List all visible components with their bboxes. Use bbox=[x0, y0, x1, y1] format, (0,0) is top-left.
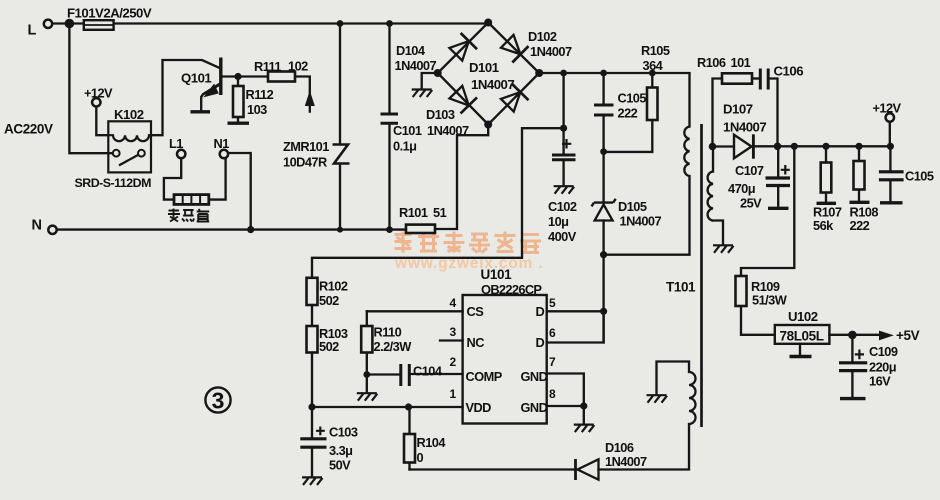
svg-text:GND: GND bbox=[521, 369, 548, 384]
svg-text:103: 103 bbox=[247, 102, 267, 117]
wire R107 leads bbox=[825, 146, 827, 202]
terminal N1 bbox=[220, 150, 228, 158]
node heater N bbox=[247, 226, 254, 233]
wire pin7 GND bbox=[547, 374, 584, 407]
diode D105 1N4007 clamp bbox=[592, 199, 616, 221]
capacitor C106 bbox=[760, 69, 768, 90]
svg-text:U101: U101 bbox=[481, 267, 513, 282]
svg-text:2: 2 bbox=[450, 355, 457, 369]
svg-text:6: 6 bbox=[549, 326, 556, 340]
wire N1 to N rail bbox=[228, 153, 251, 230]
wire HV+ rail to transformer primary bbox=[539, 73, 689, 127]
transformer T101 core bbox=[700, 124, 703, 427]
resistor R105 364 bbox=[647, 88, 658, 121]
wire U102 ground lead bbox=[799, 344, 801, 356]
svg-text:222: 222 bbox=[850, 218, 870, 233]
svg-text:1N4007: 1N4007 bbox=[471, 77, 514, 92]
wire 12V output rail bbox=[754, 145, 890, 147]
wire primary bottom to drain node bbox=[604, 176, 690, 255]
svg-text:5: 5 bbox=[549, 296, 556, 310]
wire Q101 emitter to ground bbox=[201, 84, 219, 111]
svg-text:10D47R: 10D47R bbox=[283, 155, 327, 170]
wire L1 to heater bbox=[164, 158, 181, 199]
node R109 tap bbox=[791, 143, 798, 150]
diode D101 1N4007 (bridge bottom-right) bbox=[499, 84, 528, 113]
svg-text:C109: C109 bbox=[869, 344, 898, 359]
svg-text:1: 1 bbox=[450, 387, 457, 401]
svg-text:SRD-S-112DM: SRD-S-112DM bbox=[75, 176, 152, 190]
wire secondary bottom to ground bbox=[713, 221, 723, 245]
wire D106 anode to aux winding bbox=[599, 424, 690, 470]
node L/fuse bbox=[65, 19, 75, 29]
svg-text:0: 0 bbox=[417, 450, 424, 465]
svg-text:N: N bbox=[32, 218, 42, 234]
node C101 top bbox=[386, 20, 393, 27]
heater element 发热盘 bbox=[174, 195, 209, 205]
node drain-pin5 bbox=[600, 308, 607, 315]
svg-text:1N4007: 1N4007 bbox=[395, 58, 437, 73]
svg-text:K102: K102 bbox=[114, 107, 144, 122]
svg-text:2.2/3W: 2.2/3W bbox=[374, 339, 413, 354]
wire secondary top lead bbox=[712, 147, 714, 172]
wire heater to N1 bbox=[209, 158, 226, 199]
wire ZMR101 leads bbox=[339, 24, 341, 230]
wire C106 to snubber right leg bbox=[769, 79, 778, 147]
transformer T101 secondary winding bbox=[708, 172, 713, 221]
svg-text:101: 101 bbox=[731, 55, 751, 70]
svg-text:D104: D104 bbox=[396, 43, 426, 58]
svg-text:C104: C104 bbox=[413, 364, 443, 379]
wire pin6 D to drain line bbox=[547, 311, 604, 342]
svg-text:502: 502 bbox=[319, 339, 339, 354]
wire C109 leads bbox=[851, 335, 853, 398]
ground secondary winding bbox=[713, 245, 734, 253]
resistor R103 502 bbox=[307, 326, 318, 353]
wire C102 top lead bbox=[562, 73, 564, 154]
ground C109 bbox=[840, 397, 866, 400]
svg-text:56k: 56k bbox=[813, 218, 834, 233]
svg-text:D102: D102 bbox=[528, 29, 557, 44]
svg-text:ZMR101: ZMR101 bbox=[283, 139, 329, 154]
node bridge pos bbox=[535, 69, 543, 77]
capacitor C104 bbox=[401, 364, 410, 386]
resistor R110 2.2/3W bbox=[361, 326, 372, 353]
svg-text:D: D bbox=[536, 304, 545, 319]
transformer T101 aux winding bbox=[689, 372, 696, 424]
svg-text:3: 3 bbox=[450, 325, 457, 339]
svg-text:C106: C106 bbox=[774, 64, 804, 79]
ground Q101 emitter bbox=[191, 110, 211, 113]
wire R104 leads bbox=[408, 407, 410, 470]
ground R110 / C104 bbox=[357, 393, 378, 401]
resistor R106 101 bbox=[722, 73, 752, 83]
wire CS pin4 to R110 bbox=[367, 310, 463, 312]
node R105 rail bbox=[649, 70, 656, 77]
resistor R107 56k bbox=[821, 163, 832, 193]
svg-text:C102: C102 bbox=[548, 199, 577, 214]
svg-text:R104: R104 bbox=[417, 435, 447, 450]
transistor Q101 bbox=[203, 58, 222, 97]
node clamp bbox=[600, 148, 607, 155]
page marker circled 3 bbox=[205, 387, 230, 413]
wire snubber left leg bbox=[713, 79, 723, 147]
svg-text:U102: U102 bbox=[788, 309, 818, 324]
ground R108 bbox=[850, 201, 870, 204]
svg-text:R112: R112 bbox=[246, 87, 274, 102]
capacitor C101 0.1u bbox=[381, 114, 399, 123]
transformer T101 primary winding bbox=[684, 127, 689, 177]
wire C102 bottom to ground bbox=[562, 161, 564, 186]
node startup bbox=[560, 125, 567, 132]
label 发热盘 (heater) bbox=[168, 209, 209, 222]
svg-text:C103: C103 bbox=[329, 425, 358, 440]
svg-text:1N4007: 1N4007 bbox=[620, 214, 662, 229]
arrow up near R111 (to +12V) bbox=[305, 91, 315, 107]
svg-text:7: 7 bbox=[549, 355, 556, 369]
wire C104 left lead bbox=[367, 373, 400, 375]
svg-text:C101: C101 bbox=[393, 123, 422, 138]
node R107 tap bbox=[822, 143, 829, 150]
node +5V bbox=[848, 331, 857, 340]
svg-text:4: 4 bbox=[450, 296, 457, 310]
svg-text:R110: R110 bbox=[374, 325, 402, 340]
capacitor C107 470u 25V bbox=[766, 165, 791, 186]
terminal L bbox=[44, 20, 52, 28]
capacitor C105 output bbox=[879, 172, 904, 180]
op-amp U101 OB2226CP box bbox=[463, 295, 547, 424]
svg-text:GND: GND bbox=[521, 400, 548, 415]
wire R101 right to bridge bottom bbox=[435, 126, 488, 229]
wire D105 anode to drain line bbox=[602, 221, 604, 343]
node R108 tap bbox=[855, 143, 862, 150]
svg-text:+5V: +5V bbox=[896, 328, 920, 343]
wire L branch down to relay contact bbox=[69, 24, 112, 154]
capacitor C103 3.3u 50V bbox=[300, 427, 326, 448]
resistor R101 51 bbox=[406, 225, 435, 233]
svg-text:F101V2A/250V: F101V2A/250V bbox=[67, 6, 152, 21]
node Q101 base bbox=[234, 73, 241, 80]
wire C107 leads bbox=[777, 146, 779, 207]
wire C103 top lead bbox=[311, 407, 313, 438]
wire +12V terminal lead bbox=[889, 122, 891, 146]
node ZMR top bbox=[337, 20, 344, 27]
svg-text:N1: N1 bbox=[214, 136, 230, 151]
svg-text:50V: 50V bbox=[329, 458, 351, 473]
wire C103 bottom to ground bbox=[311, 449, 313, 477]
svg-text:C107: C107 bbox=[735, 163, 764, 178]
svg-text:51/3W: 51/3W bbox=[752, 293, 788, 308]
wire R111 to up-arrow stub bbox=[295, 77, 310, 112]
wire bridge diamond bbox=[438, 23, 540, 125]
wire R106 to C106 bbox=[752, 77, 760, 79]
resistor R108 222 bbox=[854, 161, 865, 190]
wire R109 to U102 bbox=[741, 306, 775, 335]
svg-text:470μ: 470μ bbox=[728, 181, 755, 196]
fuse F101 V2A/250V bbox=[84, 20, 114, 30]
node D107 cathode bbox=[774, 143, 782, 151]
svg-text:D106: D106 bbox=[605, 440, 634, 455]
ground aux winding bbox=[647, 395, 668, 403]
terminal +12V relay bbox=[92, 98, 100, 106]
ground U102 bbox=[790, 355, 812, 358]
svg-text:CS: CS bbox=[467, 304, 485, 319]
svg-text:10μ: 10μ bbox=[548, 214, 568, 229]
wire NC pin3 stub bbox=[440, 339, 463, 341]
wire C105 clamp leads bbox=[602, 73, 604, 152]
wire R109 feed from 12V rail bbox=[741, 146, 794, 276]
svg-text:L1: L1 bbox=[169, 136, 183, 151]
node bridge AC2 bbox=[484, 121, 492, 129]
wire C101 leads bbox=[388, 24, 390, 230]
wire R110 leads bbox=[366, 311, 368, 392]
node VDD left bbox=[308, 403, 315, 410]
arrow +5V output bbox=[879, 331, 894, 341]
terminal N bbox=[48, 226, 56, 234]
node drain-primary bbox=[600, 251, 607, 258]
svg-text:1N4007: 1N4007 bbox=[605, 454, 647, 469]
ground C103 bbox=[302, 477, 323, 485]
wire COMP pin2 bbox=[410, 373, 463, 375]
svg-text:1N4007: 1N4007 bbox=[723, 120, 766, 135]
wire R102 to R103 bbox=[311, 305, 313, 326]
svg-text:D105: D105 bbox=[618, 199, 647, 214]
resistor R109 51/3W bbox=[736, 276, 747, 306]
svg-text:C105: C105 bbox=[618, 91, 647, 106]
capacitor C102 10u 400V bbox=[552, 139, 576, 160]
ground C105 output bbox=[880, 201, 903, 204]
ground U101 pins 7-8 bbox=[574, 425, 595, 433]
svg-text:364: 364 bbox=[643, 58, 664, 73]
wire pin8 GND to ground bbox=[547, 406, 584, 424]
svg-text:VDD: VDD bbox=[466, 400, 492, 415]
svg-text:D103: D103 bbox=[426, 107, 455, 122]
wire U102 output to +5V bbox=[829, 334, 879, 336]
svg-text:D107: D107 bbox=[723, 102, 753, 117]
node GND pins bbox=[580, 402, 587, 409]
wire R104 to D106 cathode bbox=[410, 468, 575, 470]
wire R103 to VDD node bbox=[311, 353, 313, 408]
svg-text:COMP: COMP bbox=[466, 369, 503, 384]
svg-text:400V: 400V bbox=[548, 229, 577, 244]
svg-text:78L05L: 78L05L bbox=[780, 329, 824, 344]
ground bridge negative bbox=[412, 90, 433, 98]
wire R108 leads bbox=[858, 146, 860, 201]
resistor R104 0 bbox=[404, 434, 415, 463]
diode D107 1N4007 bbox=[734, 134, 753, 158]
svg-text:1N4007: 1N4007 bbox=[427, 123, 469, 138]
wire R105 leads bbox=[604, 73, 653, 152]
svg-text:502: 502 bbox=[319, 293, 339, 308]
diode D104 1N4007 (bridge top-left) bbox=[448, 33, 477, 62]
capacitor C109 220u 16V bbox=[839, 350, 867, 371]
ground R107 bbox=[817, 202, 837, 205]
node C101 bottom bbox=[386, 226, 393, 233]
terminal +12V output bbox=[886, 113, 894, 121]
svg-text:3.3μ: 3.3μ bbox=[329, 443, 352, 458]
varistor ZMR101 10D47R bbox=[333, 145, 350, 164]
svg-text:1N4007: 1N4007 bbox=[530, 44, 572, 59]
relay K102 contacts and lever bbox=[113, 150, 145, 166]
node D107 anode bbox=[709, 143, 717, 151]
wire bridge negative to ground bbox=[422, 73, 438, 89]
ground C107 bbox=[768, 207, 789, 210]
svg-text:R105: R105 bbox=[641, 43, 670, 58]
svg-text:8: 8 bbox=[549, 387, 556, 401]
ground C102 bbox=[554, 186, 575, 194]
svg-text:25V: 25V bbox=[740, 196, 762, 211]
wire Q101 base to R111 bbox=[223, 75, 268, 77]
svg-text:16V: 16V bbox=[869, 374, 891, 389]
relay K102 coil bbox=[108, 135, 151, 141]
svg-text:NC: NC bbox=[467, 335, 485, 350]
diode D106 1N4007 bbox=[576, 459, 599, 480]
resistor R112 103 bbox=[233, 86, 244, 117]
svg-text:R102: R102 bbox=[319, 279, 348, 294]
svg-text:R111: R111 bbox=[254, 59, 281, 74]
node VDD R104 bbox=[405, 403, 412, 410]
svg-text:222: 222 bbox=[618, 106, 638, 121]
watermark 精通维修下载 bbox=[395, 232, 542, 253]
svg-text:OB2226CP: OB2226CP bbox=[481, 282, 542, 297]
relay K102 SRD-S-112DM box bbox=[108, 121, 151, 172]
wire C105 output leads bbox=[889, 146, 891, 201]
svg-text:51: 51 bbox=[433, 205, 447, 220]
resistor R102 502 bbox=[307, 278, 318, 305]
node ZMR bottom bbox=[337, 227, 343, 233]
wire R112 leads bbox=[237, 77, 239, 123]
wire VDD line to pin 1 bbox=[312, 406, 463, 408]
resistor R111 102 bbox=[268, 72, 295, 82]
svg-text:T101: T101 bbox=[666, 280, 696, 295]
svg-text:L: L bbox=[28, 23, 37, 39]
wire relay coil to Q101 collector bbox=[151, 60, 219, 135]
svg-text:D101: D101 bbox=[469, 60, 499, 75]
wire pin5 D to drain line bbox=[547, 310, 604, 312]
wire startup feed C102 node to R102 bbox=[312, 128, 564, 278]
wire D107 anode lead bbox=[713, 145, 733, 147]
diode D103 1N4007 (bridge bottom-left) bbox=[448, 84, 477, 113]
svg-text:102: 102 bbox=[288, 59, 308, 74]
svg-text:220μ: 220μ bbox=[869, 360, 896, 375]
node bridge AC1 bbox=[484, 19, 492, 27]
wire N rail bbox=[57, 228, 406, 230]
wire aux winding top to ground bbox=[657, 362, 690, 395]
svg-text:3: 3 bbox=[212, 388, 225, 414]
terminal L1 bbox=[177, 150, 185, 158]
node R110-C104 bbox=[363, 371, 370, 378]
svg-text:C105: C105 bbox=[905, 169, 934, 184]
wire top L rail bbox=[52, 22, 488, 24]
node C102 rail bbox=[560, 70, 567, 77]
svg-text:+12V: +12V bbox=[873, 101, 902, 116]
capacitor C105 222 clamp bbox=[594, 105, 614, 115]
wire +12V to relay coil bbox=[96, 107, 108, 136]
svg-text:Q101: Q101 bbox=[181, 71, 211, 86]
svg-text:R106: R106 bbox=[697, 55, 726, 70]
diode D102 1N4007 (bridge top-right) bbox=[499, 33, 528, 62]
ground R112 bbox=[228, 121, 250, 124]
svg-text:+12V: +12V bbox=[84, 86, 113, 101]
wire clamp node to D105 bbox=[602, 152, 604, 203]
node bridge neg bbox=[434, 69, 442, 77]
node C105out tap bbox=[887, 143, 894, 150]
regulator U102 78L05L box bbox=[775, 325, 830, 344]
svg-text:AC220V: AC220V bbox=[4, 122, 53, 137]
node C105 rail bbox=[600, 70, 607, 77]
svg-text:0.1μ: 0.1μ bbox=[393, 139, 416, 154]
svg-text:R101: R101 bbox=[399, 205, 428, 220]
svg-text:D: D bbox=[536, 335, 545, 350]
